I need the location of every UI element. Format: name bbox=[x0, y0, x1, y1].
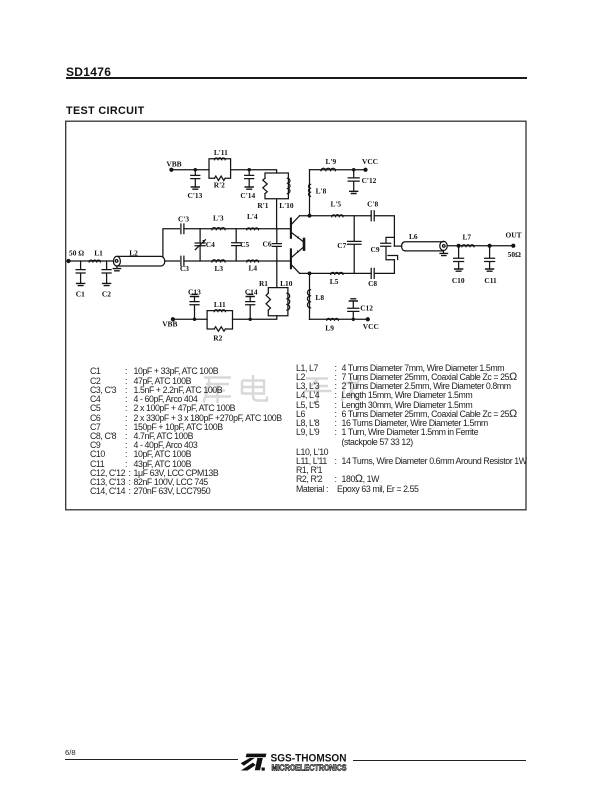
capacitor C14 bbox=[245, 288, 258, 320]
ground bbox=[103, 283, 111, 285]
inductor L'3 bbox=[212, 214, 225, 230]
capacitor C1 bbox=[76, 261, 85, 298]
ground bbox=[349, 299, 357, 301]
inductor L'4 bbox=[247, 212, 259, 230]
component list left column bbox=[0, 367, 612, 377]
svg-text:MICROELECTRONICS: MICROELECTRONICS bbox=[272, 763, 347, 772]
ground bbox=[246, 294, 254, 296]
wire: top collector rail bbox=[300, 215, 332, 217]
wire: L'11/R'2 box sides bbox=[209, 159, 231, 179]
inductor L3 bbox=[212, 260, 225, 273]
wire: L11/R2 box sides bbox=[207, 311, 232, 329]
capacitor C3 bbox=[180, 256, 189, 273]
inductor L'9 bbox=[321, 157, 337, 171]
node: VCC supply (upper) bbox=[362, 157, 378, 171]
ground bbox=[191, 294, 199, 296]
section title bbox=[66, 105, 145, 117]
capacitor C4 (trimmer) bbox=[195, 229, 215, 261]
header rule bbox=[66, 77, 528, 79]
inductor L10 bbox=[280, 279, 293, 310]
node bbox=[488, 244, 491, 247]
node: VBB supply (lower) bbox=[162, 318, 177, 329]
wire bbox=[374, 216, 394, 246]
wire bbox=[184, 228, 212, 230]
capacitor C13 bbox=[188, 288, 201, 320]
ground bbox=[245, 187, 253, 189]
ground bbox=[486, 269, 494, 271]
ground bbox=[350, 191, 358, 193]
node bbox=[353, 169, 355, 171]
inductor L1 bbox=[89, 249, 103, 262]
wire: lower VCC line bbox=[310, 318, 327, 320]
capacitor C2 bbox=[102, 261, 111, 298]
inductor L11 bbox=[214, 300, 226, 311]
node bbox=[308, 272, 311, 275]
wire bbox=[259, 260, 290, 262]
inductor L'8 bbox=[309, 170, 327, 216]
capacitor C6 bbox=[263, 229, 282, 261]
footer page number bbox=[65, 748, 76, 757]
wire: R1/L10 box top & bottom bbox=[268, 261, 288, 316]
capacitor C5 bbox=[232, 229, 250, 261]
wire: input line bbox=[69, 260, 114, 262]
inductor L'11 bbox=[214, 148, 228, 160]
coaxial line L6 bbox=[402, 232, 448, 251]
capacitor C10 bbox=[452, 246, 465, 285]
wire: lower VBB rail bbox=[173, 318, 207, 320]
capacitor C'14 bbox=[240, 170, 255, 200]
ground bbox=[191, 187, 199, 189]
node bbox=[193, 318, 195, 320]
capacitor C'8 bbox=[367, 199, 378, 220]
capacitor C8 bbox=[368, 268, 377, 288]
inductor L7 bbox=[462, 232, 474, 246]
inductor L8 bbox=[307, 273, 324, 319]
node: VCC supply (lower) bbox=[363, 318, 379, 331]
inductor L'10 bbox=[279, 178, 294, 210]
resistor R2 bbox=[213, 327, 225, 343]
wire: bottom collector rail bbox=[300, 272, 331, 274]
ground bbox=[443, 251, 445, 254]
wire bbox=[184, 260, 212, 262]
wire bbox=[231, 170, 277, 173]
ground bbox=[77, 283, 85, 285]
capacitor C11 bbox=[484, 246, 497, 285]
wire: upper VBB rail bbox=[171, 169, 209, 171]
inductor L5 bbox=[330, 272, 343, 286]
wire bbox=[225, 260, 247, 262]
wire: upper VCC line bbox=[310, 169, 322, 171]
capacitor C'3 bbox=[178, 214, 189, 233]
wire: R'1/L'10 box top & bottom bbox=[265, 173, 288, 229]
inductor L9 bbox=[325, 318, 338, 332]
node: RF output (50 ohm) bbox=[505, 230, 521, 259]
node: common emitter bar bbox=[303, 239, 306, 250]
node bbox=[457, 244, 460, 247]
node bbox=[308, 214, 311, 217]
coaxial line L2 bbox=[113, 248, 164, 266]
ground bbox=[455, 269, 463, 271]
resistor R'1 bbox=[257, 178, 268, 210]
inductor L4 bbox=[247, 260, 259, 273]
wire: output line bbox=[447, 245, 513, 247]
wire bbox=[233, 316, 277, 320]
node bbox=[249, 318, 251, 320]
capacitor C'13 bbox=[188, 170, 203, 200]
resistor R1 bbox=[259, 279, 271, 310]
wire bbox=[343, 272, 371, 274]
footer rules bbox=[65, 759, 238, 760]
wire: to L6 bbox=[394, 245, 401, 247]
wire: balun riser bbox=[163, 229, 180, 257]
material note bbox=[0, 485, 612, 495]
node bbox=[248, 169, 250, 171]
node: VBB supply (upper) bbox=[166, 159, 181, 171]
capacitor C7 bbox=[337, 216, 361, 274]
wire bbox=[225, 228, 247, 230]
node: RF input (50 ohm) bbox=[67, 249, 84, 263]
resistor R'2 bbox=[214, 176, 225, 189]
wire: coax output to C3 bbox=[165, 260, 180, 262]
node bbox=[352, 318, 354, 320]
capacitor C12 bbox=[348, 301, 373, 319]
transistor Q'1 (upper half SD1476) bbox=[291, 216, 303, 242]
wire bbox=[259, 228, 290, 230]
node bbox=[194, 169, 196, 171]
wire bbox=[338, 318, 367, 320]
header: part number bbox=[66, 65, 111, 79]
ground bbox=[116, 266, 118, 268]
inductor L'5 bbox=[330, 199, 343, 216]
component list right column bbox=[0, 364, 612, 374]
capacitor C'12 bbox=[348, 170, 376, 192]
wire bbox=[374, 260, 394, 274]
capacitor C9 (trimmer) bbox=[371, 237, 398, 259]
wire bbox=[335, 169, 365, 171]
wire bbox=[343, 215, 371, 217]
transistor Q1 (lower half SD1476) bbox=[291, 248, 303, 274]
